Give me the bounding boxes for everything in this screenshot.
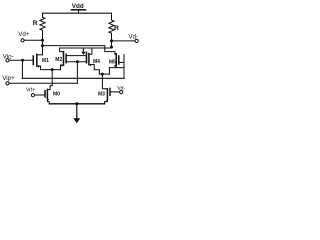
svg-text:Vip+: Vip+ xyxy=(2,75,15,82)
svg-text:M0: M0 xyxy=(53,91,60,97)
svg-text:Vrf+: Vrf+ xyxy=(26,87,35,93)
svg-text:Vdd: Vdd xyxy=(72,3,84,10)
svg-text:M5: M5 xyxy=(109,59,116,65)
svg-text:R: R xyxy=(114,25,119,32)
svg-text:Vrf-: Vrf- xyxy=(117,86,125,92)
svg-text:Vio-: Vio- xyxy=(3,53,14,60)
svg-text:M3: M3 xyxy=(98,92,105,98)
svg-text:R: R xyxy=(33,20,38,27)
svg-text:M4: M4 xyxy=(93,59,100,65)
svg-text:M1: M1 xyxy=(42,58,49,64)
svg-text:M2: M2 xyxy=(55,57,62,63)
svg-text:Vd+: Vd+ xyxy=(18,31,30,38)
svg-text:Vd-: Vd- xyxy=(128,33,138,40)
